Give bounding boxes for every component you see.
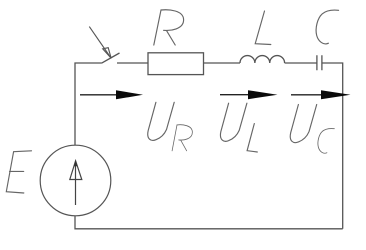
wire switch to resistor xyxy=(117,62,148,64)
label U_R xyxy=(148,102,193,151)
switch S actuator arrow xyxy=(89,27,111,59)
current arrow 3 xyxy=(291,90,351,99)
wire inductor to capacitor xyxy=(285,62,317,64)
inductor L1 coil xyxy=(240,56,285,63)
wire top-left corner and left vertical xyxy=(75,63,102,145)
label U_L xyxy=(220,103,257,152)
switch S blade xyxy=(102,53,120,63)
current arrow 2 xyxy=(220,90,278,99)
wire capacitor to top-right corner and right vertical xyxy=(322,63,343,229)
label L xyxy=(255,11,271,45)
wire resistor to inductor xyxy=(204,62,241,64)
capacitor C1 plates xyxy=(317,55,322,70)
label C xyxy=(316,10,338,44)
label U_C xyxy=(290,105,334,154)
label E xyxy=(6,151,31,193)
source E internal arrow xyxy=(70,161,82,205)
label R xyxy=(154,10,184,45)
wire bottom xyxy=(75,216,343,229)
resistor R1 body xyxy=(148,53,204,75)
source E circle xyxy=(40,145,111,216)
current arrow 1 xyxy=(80,90,143,99)
